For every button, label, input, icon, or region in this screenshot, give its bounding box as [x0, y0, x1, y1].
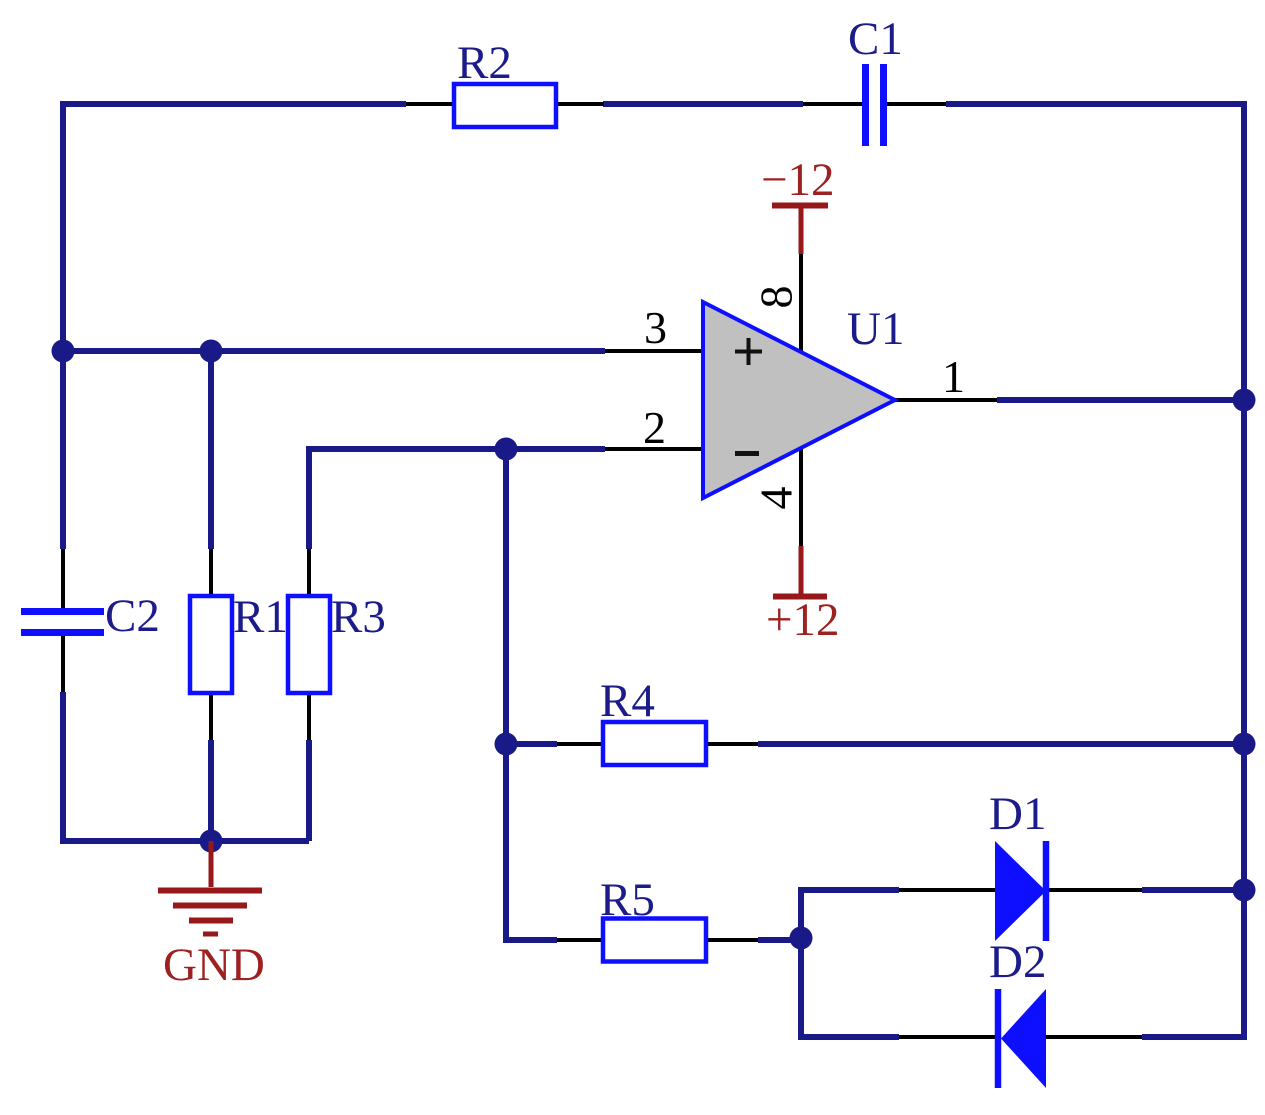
pin 2 op-amp — [605, 447, 701, 451]
node junction dot R1 top — [200, 340, 223, 363]
pin R3 top — [307, 549, 311, 596]
svg-text:8: 8 — [751, 286, 802, 309]
node junction dot D1 / right rail — [1233, 879, 1256, 902]
svg-text:R4: R4 — [600, 675, 655, 727]
svg-text:R5: R5 — [600, 874, 655, 926]
svg-text:−12: −12 — [761, 154, 835, 206]
pin R4 right — [706, 742, 758, 746]
svg-text:C2: C2 — [105, 590, 160, 642]
wire between R2 and C1 — [603, 101, 803, 107]
node junction dot R4 / right rail — [1233, 733, 1256, 756]
svg-text:R1: R1 — [233, 591, 288, 643]
node junction dot ground net — [200, 830, 223, 853]
svg-text:1: 1 — [942, 351, 965, 402]
pin R2 right — [556, 102, 604, 106]
pin R1 top — [209, 549, 213, 596]
wire R1 branch upper — [208, 351, 214, 549]
diode D1 — [995, 841, 1046, 941]
wire feedback branch vertical x=506 down to R5 — [506, 449, 557, 940]
resistor R4 — [603, 722, 706, 765]
power symbol +12 — [773, 546, 827, 597]
wire diode branch vertical + D1/D2 left stubs — [801, 890, 899, 1037]
pin 1 op-amp output — [895, 398, 997, 402]
svg-text:2: 2 — [643, 402, 666, 453]
node junction dot diode branch — [790, 927, 813, 950]
pin R2 left — [406, 102, 454, 106]
capacitor C1 — [866, 64, 884, 146]
svg-text:GND: GND — [163, 939, 265, 991]
pin D1 left — [899, 888, 995, 892]
node junction dot pin2 net — [495, 438, 518, 461]
wire inverting node to R3 (pin 2 net) — [309, 449, 605, 549]
wire top-left net (left rail top + top wire to R2) — [63, 104, 406, 549]
power symbol -12 — [772, 206, 828, 255]
svg-text:3: 3 — [644, 302, 667, 353]
svg-text:U1: U1 — [847, 303, 904, 355]
op-amp U1 — [703, 302, 895, 498]
svg-text:D1: D1 — [989, 788, 1046, 840]
pin R4 left — [557, 742, 603, 746]
resistor R2 — [454, 84, 556, 127]
resistor R5 — [603, 919, 706, 962]
wire left rail bottom + bottom ground wire — [63, 692, 309, 841]
wire R4 left stub — [506, 741, 557, 747]
wire R4 right to right rail — [758, 741, 1244, 747]
svg-text:4: 4 — [751, 487, 802, 510]
pin 4 op-amp — [799, 448, 803, 548]
pin D1 right — [1046, 888, 1142, 892]
capacitor C2 — [21, 612, 104, 633]
pin R5 left — [557, 938, 603, 942]
diode D2 — [998, 989, 1046, 1088]
pin 3 op-amp — [605, 349, 701, 353]
pin R1 bottom — [209, 693, 213, 740]
pin C1 right — [887, 102, 946, 106]
ground symbol — [158, 841, 262, 934]
svg-text:R2: R2 — [457, 37, 512, 89]
pin 8 op-amp — [799, 254, 803, 352]
node junction dot R4 left — [495, 733, 518, 756]
op-amp minus marking — [735, 451, 759, 456]
wire R3 branch lower — [306, 740, 312, 841]
pin R3 bottom — [307, 693, 311, 740]
resistor R1 — [190, 596, 232, 693]
pin C2 bottom — [61, 636, 65, 692]
pin C1 left — [803, 102, 862, 106]
wire output net — [997, 397, 1244, 403]
wire noninverting node (pin 3 net) — [63, 348, 605, 354]
wire R1 branch lower — [208, 740, 214, 841]
pin D2 right — [1046, 1035, 1142, 1039]
svg-text:C1: C1 — [848, 13, 903, 65]
pin R5 right — [706, 938, 758, 942]
wire top-right corner + right rail + D2 bottom right segment — [946, 104, 1244, 1037]
svg-text:R3: R3 — [331, 591, 386, 643]
svg-text:D2: D2 — [989, 936, 1046, 988]
pin C2 top — [61, 549, 65, 608]
wire D1 right segment — [1142, 887, 1244, 893]
resistor R3 — [288, 596, 330, 693]
wire R5 right to diode node — [758, 937, 801, 943]
pin D2 left — [899, 1035, 995, 1039]
op-amp plus marking — [735, 338, 762, 365]
svg-text:+12: +12 — [766, 594, 840, 646]
node junction dot output / right rail — [1233, 389, 1256, 412]
node junction dot left rail / pin3 net — [52, 340, 75, 363]
